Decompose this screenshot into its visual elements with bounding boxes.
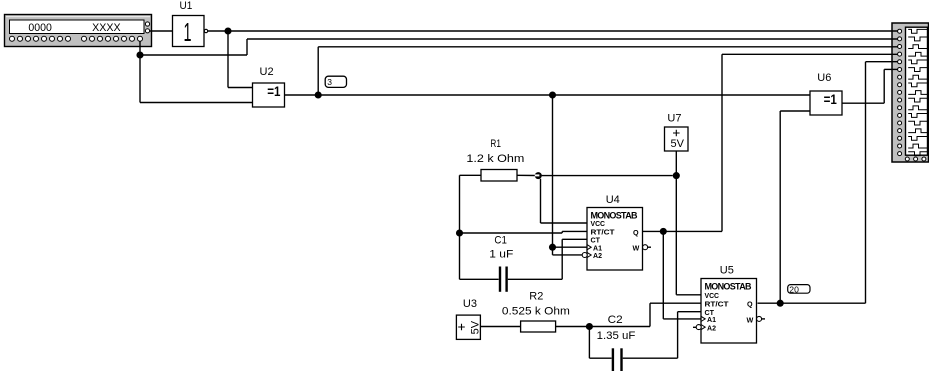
wire into U4 A1 xyxy=(553,246,588,248)
stub U5 A2 xyxy=(693,326,696,328)
wire U2 output to U6 input A xyxy=(285,94,811,96)
svg-text:1.35 uF: 1.35 uF xyxy=(597,330,636,342)
wire into U6 input B xyxy=(780,110,810,112)
wire node3 up xyxy=(317,47,319,95)
logic analyzer bottom terminals xyxy=(905,157,926,161)
wire up to U5 CT xyxy=(677,312,679,359)
svg-text:U2: U2 xyxy=(260,66,274,78)
wire down to C2 xyxy=(588,327,590,359)
node label 20 xyxy=(788,284,810,294)
wire to U4 RT/CT xyxy=(460,232,563,234)
svg-text:XXXX: XXXX xyxy=(92,22,121,34)
junction U4 Q xyxy=(660,228,667,235)
capacitor C2 plates xyxy=(613,348,622,371)
svg-text:C2: C2 xyxy=(608,314,623,326)
logic analyzer waveform glyphs xyxy=(908,29,927,155)
svg-text:C1: C1 xyxy=(494,235,507,247)
U5 W output stub xyxy=(762,318,765,320)
voltage source U3 (+5V, rotated) xyxy=(456,315,481,339)
wire U6 output xyxy=(842,102,884,104)
wire to R1 left xyxy=(460,174,482,176)
junction at U4 A1 xyxy=(549,244,556,251)
svg-text:5V: 5V xyxy=(671,138,685,150)
junction at U1 output xyxy=(224,27,231,34)
gate U6 (XOR, =1) xyxy=(810,91,842,115)
svg-text:U6: U6 xyxy=(817,72,831,84)
wire to C2 left plate xyxy=(589,357,611,359)
wire up to U4 CT xyxy=(561,239,563,279)
wire U4 Q output xyxy=(643,230,723,232)
junction RT/CT tap xyxy=(456,229,463,236)
svg-text:0.525 k Ohm: 0.525 k Ohm xyxy=(502,306,570,318)
resistor R2 xyxy=(521,321,556,332)
wire word-gen to U1 input xyxy=(150,30,173,32)
svg-text:3: 3 xyxy=(327,77,332,87)
svg-text:5V: 5V xyxy=(470,320,482,334)
junction word-gen bit0 xyxy=(136,51,143,58)
wire R1 left down to C1 xyxy=(459,175,461,279)
wire to C1 left plate xyxy=(460,278,499,280)
svg-text:U5: U5 xyxy=(720,265,734,277)
wire into U2 input B xyxy=(140,102,253,104)
wire into U5 A1 xyxy=(663,318,701,320)
junction R2 / C2 xyxy=(586,323,593,330)
wire U4 Q down to U5 A1 xyxy=(662,231,664,319)
wire node20 up to U6 xyxy=(779,111,781,303)
wire U5 Q output xyxy=(758,302,866,304)
wire into U5 CT xyxy=(678,311,701,313)
svg-text:U7: U7 xyxy=(667,113,681,125)
wire U5 Q up xyxy=(865,62,867,304)
word generator right-side terminals xyxy=(145,22,149,33)
wire bit0 to analyzer ch2 xyxy=(247,38,898,40)
wire bit0 right xyxy=(140,54,247,56)
svg-text:MONOSTAB: MONOSTAB xyxy=(705,281,753,291)
gate U2 (XOR, =1) xyxy=(253,83,285,107)
svg-text:W: W xyxy=(633,244,640,253)
svg-text:U4: U4 xyxy=(606,194,620,206)
wire U7 down to U5 VCC xyxy=(675,152,677,295)
wire word-gen bit0 down xyxy=(139,41,141,55)
svg-text:R2: R2 xyxy=(529,291,543,303)
wire R2 right xyxy=(556,326,650,328)
wire U6 output up xyxy=(883,69,885,103)
wire C1 right plate out xyxy=(508,278,562,280)
svg-text:0000: 0000 xyxy=(28,22,52,34)
wire U1 output to analyzer ch1 xyxy=(208,30,898,32)
wire down to U4 A1 xyxy=(552,95,554,247)
wire U5 Q to analyzer ch5 xyxy=(866,61,898,63)
word generator XWG1 instrument body xyxy=(5,15,152,47)
U5 W output bubble xyxy=(757,316,762,321)
wire RT/CT jog xyxy=(561,231,563,233)
junction U2 output to triggers xyxy=(549,91,556,98)
wire into U5 RT/CT xyxy=(650,302,701,304)
wire into U4 CT xyxy=(562,238,587,240)
connector node (R1 right / VCC tap) xyxy=(535,172,542,179)
wire node3 to analyzer ch3 xyxy=(318,46,897,48)
wire into U5 VCC xyxy=(676,294,701,296)
logic analyzer XLA1 instrument body xyxy=(892,23,929,162)
U1 output bubble xyxy=(204,29,207,32)
svg-text:U3: U3 xyxy=(463,298,477,310)
svg-text:W: W xyxy=(747,315,754,324)
wire into U4 VCC xyxy=(541,222,588,224)
resistor R1 xyxy=(481,170,517,182)
wire down to U2 input A xyxy=(227,31,229,88)
gate U1 (digital buffer, box with 1) xyxy=(173,16,205,48)
wire into U2 input A xyxy=(228,87,253,89)
svg-text:R1: R1 xyxy=(490,138,501,150)
svg-text:20: 20 xyxy=(789,284,799,294)
svg-text:Q: Q xyxy=(633,228,639,237)
wire connector to 5V junction xyxy=(542,175,673,177)
U4 W output stub xyxy=(648,246,651,248)
wire R1 right to connector xyxy=(517,174,535,176)
wire up to U5 RT/CT xyxy=(649,303,651,326)
svg-text:=1: =1 xyxy=(824,92,838,107)
svg-text:A2: A2 xyxy=(707,323,716,332)
word generator bottom terminals xyxy=(10,36,143,41)
wire into U4 A2 bubble xyxy=(553,254,583,256)
monostable U5 (MONOSTAB) xyxy=(701,279,757,344)
wire down to U4 A2 xyxy=(552,247,554,255)
wire bit0 down to U2 xyxy=(139,55,141,103)
U4 W output bubble xyxy=(643,245,648,250)
svg-text:1 uF: 1 uF xyxy=(489,249,513,261)
wire bit0 up xyxy=(246,39,248,55)
wire C2 right plate out xyxy=(623,357,678,359)
svg-text:U1: U1 xyxy=(180,0,193,12)
node label 3 xyxy=(325,76,346,87)
svg-text:=1: =1 xyxy=(267,84,281,99)
svg-text:A2: A2 xyxy=(593,251,602,260)
wire U4 Q up xyxy=(721,54,723,231)
wire U4 Q to analyzer ch4 xyxy=(722,53,898,55)
wire into U4 RT/CT xyxy=(562,230,587,232)
voltage source U7 (+5V) xyxy=(665,127,689,151)
junction U2 output node 3 xyxy=(315,91,322,98)
U4 A2 input bubble xyxy=(582,253,587,258)
logic analyzer channel terminals xyxy=(898,29,902,155)
junction U7 5V rail xyxy=(673,172,680,179)
wire U3 to R2 xyxy=(480,326,520,328)
svg-text:1.2 k Ohm: 1.2 k Ohm xyxy=(466,153,524,165)
wire U6 output to analyzer ch6 xyxy=(884,68,897,70)
monostable U4 (MONOSTAB) xyxy=(587,208,643,271)
junction U5 Q node 20 xyxy=(777,300,784,307)
capacitor C1 plates xyxy=(500,267,507,292)
wire connector down to U4 VCC xyxy=(540,179,542,223)
svg-text:1: 1 xyxy=(184,17,192,47)
U5 A2 input bubble xyxy=(696,325,701,330)
svg-text:Q: Q xyxy=(747,300,753,309)
